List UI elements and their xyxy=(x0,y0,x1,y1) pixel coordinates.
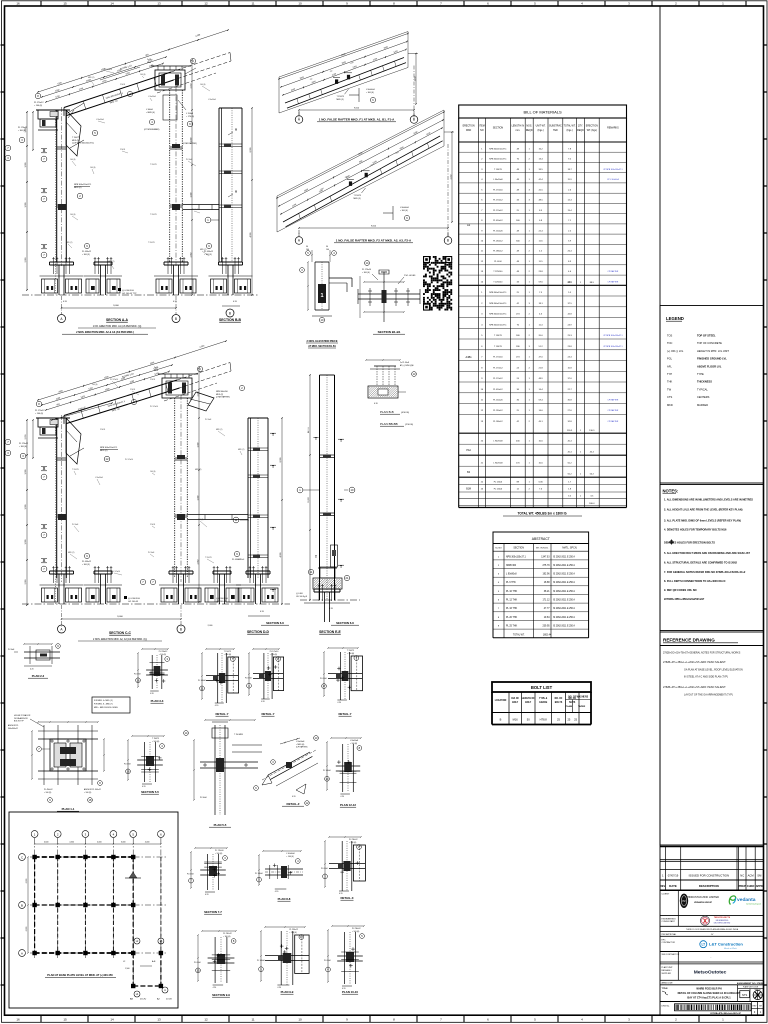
svg-text:PL 230x12: PL 230x12 xyxy=(493,241,503,243)
svg-text:CP L 90x90x8: CP L 90x90x8 xyxy=(607,179,619,181)
svg-text:4 20: 4 20 xyxy=(213,987,217,989)
svg-text:PLAN 2-2: PLAN 2-2 xyxy=(32,674,45,678)
svg-text:THIRD FLOOR SEASONS PLAZA MUMB: THIRD FLOOR SEASONS PLAZA MUMBAI 400001 … xyxy=(686,928,739,931)
svg-text:FINISHED GROUND LVL: FINISHED GROUND LVL xyxy=(697,357,727,361)
svg-text:PL 20 THK: PL 20 THK xyxy=(506,617,518,619)
svg-text:HEIGHT IN MTR. LVL UNIT: HEIGHT IN MTR. LVL UNIT xyxy=(697,349,729,353)
svg-text:+ 100 (6): + 100 (6) xyxy=(270,654,278,656)
svg-text:(4 NOS): (4 NOS) xyxy=(401,412,409,414)
svg-text:ASSIGNMENT NO. 2782B: ASSIGNMENT NO. 2782B xyxy=(737,982,764,985)
svg-text:+ 100 (9): + 100 (9) xyxy=(82,254,90,256)
svg-text:4 20: 4 20 xyxy=(374,403,378,405)
svg-text:PL 230x12: PL 230x12 xyxy=(349,839,358,841)
svg-text:+ 100 (6): + 100 (6) xyxy=(347,653,355,655)
svg-text:15: 15 xyxy=(63,1018,67,1022)
svg-text:B1M: B1M xyxy=(466,489,471,491)
svg-text:CP NPB 300x150x37.1: CP NPB 300x150x37.1 xyxy=(603,346,622,348)
elevation1 haunch at eave xyxy=(66,110,81,156)
svg-text:PL 90x8: PL 90x8 xyxy=(148,552,154,554)
false rafter detail 1 xyxy=(279,32,418,124)
rafter detail dims above xyxy=(281,128,442,214)
svg-text:L 90x90x8: L 90x90x8 xyxy=(493,463,503,465)
svg-text:MKD (2): MKD (2) xyxy=(100,450,108,452)
elevation2 rafter xyxy=(64,380,177,416)
svg-text:TYP: TYP xyxy=(667,372,672,376)
BOM group boundary xyxy=(459,284,627,286)
svg-text:LENGTH OF: LENGTH OF xyxy=(522,698,536,700)
svg-text:100 (6): 100 (6) xyxy=(200,84,206,86)
svg-text:2782B+4TL+3B1+L+L+2021+ST+ARR:: 2782B+4TL+3B1+L+L+2021+ST+ARR: PESO SALI… xyxy=(663,686,726,689)
svg-text:TED: TED xyxy=(553,130,558,132)
svg-text:A1 LVL: A1 LVL xyxy=(307,427,310,433)
purlin piece bracket xyxy=(329,277,352,279)
svg-text:NC: NC xyxy=(740,874,744,878)
svg-text:9,000: 9,000 xyxy=(113,305,119,307)
svg-text:2U 2B: 2U 2B xyxy=(166,999,172,1001)
svg-text:4,000: 4,000 xyxy=(250,233,252,238)
svg-text:L 90x90x8: L 90x90x8 xyxy=(208,99,216,101)
svg-text:PL 10 THK: PL 10 THK xyxy=(506,591,518,593)
svg-text:9,000: 9,000 xyxy=(117,616,123,618)
svg-text:PL 67x8: PL 67x8 xyxy=(194,962,201,964)
svg-text:L 90x90x8: L 90x90x8 xyxy=(506,574,517,576)
svg-text:LT: LT xyxy=(701,943,705,947)
svg-text:2x PL: 2x PL xyxy=(154,367,159,369)
svg-text:PL 450x12: PL 450x12 xyxy=(493,389,503,391)
svg-text:4 20: 4 20 xyxy=(30,669,34,671)
svg-text:MKD: MKD xyxy=(466,130,471,132)
detail PLAN 10-10 xyxy=(324,925,365,994)
svg-text:LVL 100.45: LVL 100.45 xyxy=(128,601,139,603)
svg-text:+ MKD (4): + MKD (4) xyxy=(146,112,155,114)
elevation2 strut to DD column xyxy=(187,514,248,516)
svg-text:PL 170x12: PL 170x12 xyxy=(19,443,28,445)
svg-text:3,000: 3,000 xyxy=(197,496,199,501)
plan B-B small detail xyxy=(358,359,416,426)
svg-text:.: . xyxy=(711,955,712,959)
svg-text:PL 67x8: PL 67x8 xyxy=(320,678,327,680)
svg-text:8,000: 8,000 xyxy=(250,148,252,153)
svg-text:LEGEND: LEGEND xyxy=(666,316,684,321)
svg-text:PL 170x12: PL 170x12 xyxy=(493,378,503,380)
section D-D column view xyxy=(232,417,283,634)
svg-text:MKD (5): MKD (5) xyxy=(337,99,344,101)
sheet rev cells xyxy=(751,1002,753,1016)
svg-text:NPB 300x150x37.1: NPB 300x150x37.1 xyxy=(74,184,92,186)
svg-text:4,000: 4,000 xyxy=(97,842,102,844)
svg-text:1 NO. FALSE RAFTER MKD. F1 AT: 1 NO. FALSE RAFTER MKD. F1 AT MKD. A1, B… xyxy=(319,118,395,122)
svg-text:2x PL 90x8: 2x PL 90x8 xyxy=(400,362,409,364)
svg-text:NPB 300x150: NPB 300x150 xyxy=(216,391,228,393)
svg-text:130.9: 130.9 xyxy=(589,430,595,432)
sectionBB callout xyxy=(205,217,211,223)
rafter detail grid bubbles + title xyxy=(295,237,303,245)
svg-text:PL 140x8: PL 140x8 xyxy=(323,770,331,772)
svg-text:3,000: 3,000 xyxy=(25,203,27,208)
svg-text:9,000: 9,000 xyxy=(371,226,377,228)
svg-text:PLAIN: PLAIN xyxy=(566,705,573,708)
plan column markers xyxy=(32,855,36,859)
svg-text:ERECTION: ERECTION xyxy=(586,126,598,128)
svg-text:(-) 0.300 FGL: (-) 0.300 FGL xyxy=(216,598,229,600)
planBB dim xyxy=(366,359,400,361)
svg-text:SECTION 6-6: SECTION 6-6 xyxy=(266,621,284,625)
svg-text:100 (6): 100 (6) xyxy=(140,74,146,76)
svg-text:DESCRIPTION: DESCRIPTION xyxy=(699,884,719,888)
legend box xyxy=(660,306,764,484)
svg-text:SECTION B1-B1: SECTION B1-B1 xyxy=(378,330,401,334)
svg-text:(Kgs.): (Kgs.) xyxy=(566,130,572,132)
abstract table xyxy=(493,532,589,544)
svg-text:T 150/75: T 150/75 xyxy=(205,557,212,559)
svg-text:PLAN BB-BB: PLAN BB-BB xyxy=(380,422,398,426)
svg-text:SECTION A-A: SECTION A-A xyxy=(106,318,128,322)
right panel divider xyxy=(659,6,661,1015)
svg-text:(1,0P NPB 300x150x37.1): (1,0P NPB 300x150x37.1) xyxy=(72,143,94,145)
svg-text:4 20: 4 20 xyxy=(292,796,296,798)
svg-text:LVL 100 Kg N: LVL 100 Kg N xyxy=(296,596,308,598)
svg-text:LAYOUT OF THE GA ARRANGEMENT (: LAYOUT OF THE GA ARRANGEMENT (TYP) xyxy=(684,694,733,697)
svg-text:3,000: 3,000 xyxy=(25,540,27,545)
svg-text:PLAN 10-10: PLAN 10-10 xyxy=(342,990,358,994)
svg-text:SECTION E-E: SECTION E-E xyxy=(319,630,341,634)
svg-text:BILL OF MATERIALS: BILL OF MATERIALS xyxy=(523,110,562,115)
svg-text:4 20: 4 20 xyxy=(261,701,265,703)
svg-text:PL 67x8: PL 67x8 xyxy=(134,673,141,675)
svg-text:4 20: 4 20 xyxy=(275,891,279,893)
other consultant row xyxy=(660,961,764,963)
svg-text:HZ: HZ xyxy=(682,900,686,903)
svg-text:MKD (2): MKD (2) xyxy=(108,261,115,263)
svg-text:TYPE: TYPE xyxy=(697,372,704,376)
svg-text:PL 67x8: PL 67x8 xyxy=(245,678,252,680)
svg-text:T 150/75: T 150/75 xyxy=(494,335,503,337)
svg-text:100 (6): 100 (6) xyxy=(70,159,76,161)
svg-text:PMC APPROVAL: PMC APPROVAL xyxy=(662,933,677,936)
svg-text:18.88: 18.88 xyxy=(544,582,550,584)
B1B1 bolts xyxy=(369,288,371,306)
svg-text:PL 170x12: PL 170x12 xyxy=(35,410,45,412)
svg-text:NPB 300x150x37.1: NPB 300x150x37.1 xyxy=(489,292,507,294)
L&T logo xyxy=(700,941,707,948)
svg-text:CP NPB 300x150x37.1: CP NPB 300x150x37.1 xyxy=(603,169,622,171)
svg-text:4,000: 4,000 xyxy=(280,553,282,558)
svg-text:SECTION: SECTION xyxy=(513,547,524,550)
elevation1 left grid callouts xyxy=(5,145,11,151)
svg-text:PL 140x8: PL 140x8 xyxy=(257,960,265,962)
svg-text:vedanta: vedanta xyxy=(737,897,756,903)
plan grid lines horizontal xyxy=(30,856,166,858)
svg-text:WT. (Kgs): WT. (Kgs) xyxy=(587,130,597,132)
elevation1 ground line xyxy=(22,294,258,296)
svg-text:SUPPLIER: SUPPLIER xyxy=(662,973,672,975)
svg-text:1,500: 1,500 xyxy=(125,968,130,970)
svg-text:SECTION B-B: SECTION B-B xyxy=(219,318,242,322)
svg-text:3,000: 3,000 xyxy=(190,138,192,143)
svg-text:AFL: AFL xyxy=(667,364,672,368)
svg-text:NO. OF: NO. OF xyxy=(555,698,563,700)
svg-text:PL 90x8: PL 90x8 xyxy=(205,419,211,421)
svg-text:8,000: 8,000 xyxy=(280,458,282,463)
svg-text:VEDANTA GROUP: VEDANTA GROUP xyxy=(694,901,713,904)
svg-text:PL 450x12: PL 450x12 xyxy=(204,251,213,253)
plan 5-5 cross detail xyxy=(184,719,262,827)
svg-text:+ 100 (6): + 100 (6) xyxy=(223,936,231,938)
svg-text:B: B xyxy=(21,903,23,907)
svg-text:ABOVE FLOOR LVL: ABOVE FLOOR LVL xyxy=(697,364,722,368)
svg-text:SECTION 5-5: SECTION 5-5 xyxy=(141,790,159,794)
svg-text:NOTES:: NOTES: xyxy=(663,489,679,494)
svg-text:SECTION 6-6: SECTION 6-6 xyxy=(336,621,354,625)
svg-text:+ 100 (9): + 100 (9) xyxy=(204,254,212,256)
elevation1 eave connection detail xyxy=(38,110,58,119)
svg-text:100 (6): 100 (6) xyxy=(90,167,96,169)
svg-text:10: 10 xyxy=(298,1018,302,1022)
svg-text:1. ALL DIMENSIONS ARE IN MILLI: 1. ALL DIMENSIONS ARE IN MILLIMETERS AND… xyxy=(664,498,753,502)
svg-text:3,000: 3,000 xyxy=(25,470,27,475)
svg-text:4 20: 4 20 xyxy=(277,987,281,989)
svg-text:4,500: 4,500 xyxy=(44,842,49,844)
svg-text:B: B xyxy=(447,239,449,243)
svg-text:MKD (5): MKD (5) xyxy=(354,198,361,200)
svg-text:T 150/75: T 150/75 xyxy=(224,651,231,653)
svg-text:MKD + MKD 300 NOS. SIDES: MKD + MKD 300 NOS. SIDES xyxy=(94,707,119,709)
plan row bubbles xyxy=(19,854,26,861)
svg-text:M16: M16 xyxy=(513,718,519,722)
svg-text:ABSTRACT: ABSTRACT xyxy=(532,537,550,541)
svg-text:4 20: 4 20 xyxy=(339,893,343,895)
svg-text:2,250: 2,250 xyxy=(414,76,416,81)
svg-text:TOTAL WT. 450LBS 3m x 1800 lb: TOTAL WT. 450LBS 3m x 1800 lb xyxy=(517,512,566,516)
svg-text:NPB 300x150x37.1: NPB 300x150x37.1 xyxy=(506,556,527,558)
svg-text:12: 12 xyxy=(204,2,208,6)
Hindustan Zinc oval logo xyxy=(680,894,688,908)
svg-text:MARKED: MARKED xyxy=(697,403,708,407)
svg-text:(+) OR (-) LVL: (+) OR (-) LVL xyxy=(667,349,684,353)
svg-text:MKD (2): MKD (2) xyxy=(88,77,95,79)
svg-text:IS 2062-2011 E 250 A: IS 2062-2011 E 250 A xyxy=(553,590,575,593)
svg-text:4,500: 4,500 xyxy=(69,842,74,844)
note box xyxy=(92,697,130,713)
svg-text:300x300x12: 300x300x12 xyxy=(8,728,18,730)
svg-text:2 NOS: 2 NOS xyxy=(130,389,136,391)
svg-text:REV: REV xyxy=(660,884,666,888)
svg-text:SECTION 7-7: SECTION 7-7 xyxy=(204,910,222,914)
sectionDD base xyxy=(246,570,270,572)
svg-text:4. DENOTES HOLES FOR TEMP: 4. DENOTES HOLES FOR TEMPORARY BOLTS M16 xyxy=(664,528,727,532)
svg-text:PA4: PA4 xyxy=(466,449,471,452)
svg-text:QTY.: QTY. xyxy=(578,126,583,128)
svg-text:+ 100 (6): + 100 (6) xyxy=(18,130,26,132)
supplier row xyxy=(660,963,764,965)
BOM group A1 rows xyxy=(459,151,627,153)
svg-text:T 150/75: T 150/75 xyxy=(148,242,155,244)
svg-text:IS 2062-2011 E 250 A: IS 2062-2011 E 250 A xyxy=(553,555,575,558)
svg-text:MKD (2): MKD (2) xyxy=(238,449,245,451)
svg-text:LOCATION: LOCATION xyxy=(495,699,507,702)
svg-text:PLAN 3-3: PLAN 3-3 xyxy=(151,699,164,703)
svg-text:4 20: 4 20 xyxy=(142,786,146,788)
svg-text:CENTERS: CENTERS xyxy=(697,395,710,399)
rafter detail cleats xyxy=(349,181,352,186)
svg-text:PL 170x10: PL 170x10 xyxy=(215,850,224,852)
svg-text:PL 90x8: PL 90x8 xyxy=(200,797,207,799)
svg-text:TW: TW xyxy=(667,387,672,391)
svg-text:4 20: 4 20 xyxy=(215,705,219,707)
svg-text:PL 170x12: PL 170x12 xyxy=(493,200,503,202)
B1B1 vertical bolt xyxy=(383,272,385,322)
svg-text:7. FOR GENERAL NOTES REFER DRG: 7. FOR GENERAL NOTES REFER DRG NO 2782B+… xyxy=(664,570,746,574)
svg-text:MKD (2): MKD (2) xyxy=(68,552,75,554)
elevation1 dashed projection xyxy=(171,53,230,73)
svg-text:2 NOS. ERECTION MKD. A2, A3 (A: 2 NOS. ERECTION MKD. A2, A3 (AS PER MKD.… xyxy=(93,638,147,641)
svg-text:T 150/75: T 150/75 xyxy=(347,650,354,652)
elevation2 mid haunch detail xyxy=(188,392,214,411)
svg-text:CTS: CTS xyxy=(667,395,672,399)
svg-text:LENGTH IN: LENGTH IN xyxy=(512,126,525,128)
svg-text:REQD: REQD xyxy=(577,130,584,132)
svg-text:PLAN 9-9: PLAN 9-9 xyxy=(281,990,294,994)
svg-text:171.12: 171.12 xyxy=(542,600,550,602)
plan view box xyxy=(9,812,178,1008)
svg-text:PL 170x12: PL 170x12 xyxy=(34,102,44,104)
svg-text:ENGINEERING: ENGINEERING xyxy=(662,918,676,920)
svg-text:BAY AT CT4 AauCT1 PLA1 A B CPL: BAY AT CT4 AauCT1 PLA1 A B CPL1 xyxy=(687,997,731,1000)
svg-text:T 150/75: T 150/75 xyxy=(354,195,361,197)
svg-text:NPB 300x150x37.1: NPB 300x150x37.1 xyxy=(100,447,118,449)
svg-text:14: 14 xyxy=(110,1018,114,1022)
svg-text:A4B1: A4B1 xyxy=(466,356,473,359)
svg-text:MKD (2): MKD (2) xyxy=(216,394,223,396)
svg-text:PL 90x8: PL 90x8 xyxy=(238,559,244,561)
svg-text:+ 100 (6): + 100 (6) xyxy=(352,931,360,933)
svg-text:NPB 300x150x37.1: NPB 300x150x37.1 xyxy=(489,303,507,305)
svg-text:1 NO. ERECTION MKD. A1 (AS PER: 1 NO. ERECTION MKD. A1 (AS PER MKD. (1)) xyxy=(93,325,142,328)
svg-text:1802.44: 1802.44 xyxy=(543,634,552,636)
svg-text:B: B xyxy=(413,118,415,122)
BOM header xyxy=(459,141,627,143)
svg-text:(-) 0.300 FGL: (-) 0.300 FGL xyxy=(122,290,135,292)
sectionEE left dim xyxy=(309,375,311,600)
svg-text:2x PL: 2x PL xyxy=(147,59,152,61)
svg-text:SECTION D-D: SECTION D-D xyxy=(247,630,270,634)
elevation1 rafter xyxy=(64,72,171,108)
svg-text:192.96: 192.96 xyxy=(542,574,550,576)
elevation2 dashed projection xyxy=(177,363,230,381)
svg-text:TATA PROJECTS: TATA PROJECTS xyxy=(714,916,731,919)
svg-text:6,000: 6,000 xyxy=(26,879,28,884)
svg-text:+ 100 (6): + 100 (6) xyxy=(35,413,43,415)
rafter detail stiffener ticks xyxy=(299,213,301,219)
svg-text:PL 230x12: PL 230x12 xyxy=(352,928,361,930)
scale cells xyxy=(738,988,764,990)
svg-text:14: 14 xyxy=(110,2,114,6)
bolt list table xyxy=(492,682,591,692)
detail DETAIL-X xyxy=(321,836,365,900)
svg-text:FGL: FGL xyxy=(667,357,673,361)
reference drawing box xyxy=(660,646,764,846)
svg-text:3. ALL PLATE MKD. DIMS OF 6mm: 3. ALL PLATE MKD. DIMS OF 6mm LEVELS (RE… xyxy=(664,519,741,523)
rafter detail right end dim xyxy=(451,132,453,222)
svg-text:PL 120x6: PL 120x6 xyxy=(494,481,503,483)
svg-text:2 NOS: 2 NOS xyxy=(100,429,106,431)
svg-text:CP RAFTER: CP RAFTER xyxy=(608,280,619,283)
svg-text:PL 170x10: PL 170x10 xyxy=(150,406,158,408)
svg-text:SUB CONTRACTOR: SUB CONTRACTOR xyxy=(662,953,680,956)
svg-text:T 225/140: T 225/140 xyxy=(493,281,503,283)
svg-text:PL 25 THK: PL 25 THK xyxy=(506,626,518,628)
detail PLAN 8-8 xyxy=(255,850,303,901)
svg-text:THK: THK xyxy=(667,380,672,384)
svg-text:CP NPB 300x150x37.1: CP NPB 300x150x37.1 xyxy=(603,335,622,337)
svg-text:PL 120x6: PL 120x6 xyxy=(494,489,503,491)
svg-text:CP RAFTER: CP RAFTER xyxy=(608,270,619,273)
svg-text:12: 12 xyxy=(204,1018,208,1022)
detail PLAN 3-3 xyxy=(134,648,170,703)
elevation1 grid bubbles xyxy=(58,315,66,323)
svg-text:PL 170x10: PL 170x10 xyxy=(493,357,503,359)
svg-text:+ 100 (6): + 100 (6) xyxy=(152,741,160,743)
svg-text:MKD (5): MKD (5) xyxy=(72,140,79,142)
QR code xyxy=(423,256,452,311)
elevation section C-C xyxy=(5,331,290,641)
svg-text:6. ALL STRUCTURAL DETAILS ARE: 6. ALL STRUCTURAL DETAILS ARE CONFIRMED … xyxy=(664,561,738,565)
svg-text:+ 100 (6): + 100 (6) xyxy=(289,932,297,934)
svg-text:L 90x90x8: L 90x90x8 xyxy=(95,477,103,479)
svg-text:HINDUSTAN ZINC LIMITED: HINDUSTAN ZINC LIMITED xyxy=(687,895,719,899)
plan grid bubbles top xyxy=(31,831,38,838)
svg-text:TITLE: TITLE xyxy=(662,988,669,990)
svg-text:47.77: 47.77 xyxy=(544,608,550,610)
rafter detail grid bubbles + title xyxy=(295,116,303,124)
svg-text:L 90x90x8: L 90x90x8 xyxy=(286,853,294,855)
svg-text:PL 67x8: PL 67x8 xyxy=(324,960,331,962)
svg-text:+ 170 (6): + 170 (6) xyxy=(186,116,194,118)
svg-text:2,950: 2,950 xyxy=(190,253,192,258)
svg-text:20 DIA ANCHOR: 20 DIA ANCHOR xyxy=(14,717,28,720)
svg-text:NPB 300x150x37.1: NPB 300x150x37.1 xyxy=(489,148,507,150)
consultant address strip xyxy=(660,931,764,933)
detail SECTION 7-7 xyxy=(187,847,228,914)
elevation2 ridge connection xyxy=(162,378,192,398)
svg-text:ISMB 300: ISMB 300 xyxy=(506,565,517,567)
svg-text:2 NOS. ERECTION MKD. A2 & A3 (: 2 NOS. ERECTION MKD. A2 & A3 (AS PER MKD… xyxy=(76,331,134,334)
svg-text:38.21: 38.21 xyxy=(544,591,550,593)
svg-text:(-) 0.300: (-) 0.300 xyxy=(296,593,303,595)
svg-text:(CP RAFTER): (CP RAFTER) xyxy=(296,746,308,749)
plan section arrow xyxy=(129,872,137,878)
false rafter detail 2 xyxy=(277,110,454,244)
svg-text:ANCHOR PL: ANCHOR PL xyxy=(8,724,18,727)
elevation1 left column xyxy=(56,110,58,262)
svg-text:TYPE &: TYPE & xyxy=(539,698,548,700)
svg-text:6,000: 6,000 xyxy=(26,927,28,932)
svg-text:B: B xyxy=(180,627,182,631)
svg-text:B: B xyxy=(175,317,177,321)
svg-text:PL 170x10: PL 170x10 xyxy=(362,269,371,271)
svg-text:2 NO. HOLES: 2 NO. HOLES xyxy=(404,275,416,277)
rafter detail stiffener ticks xyxy=(297,99,299,105)
BOM subtotal A4B1 + small groups xyxy=(459,432,627,434)
svg-text:MetsoOutotec: MetsoOutotec xyxy=(694,970,727,976)
svg-text:(CP NPB MEMBER): (CP NPB MEMBER) xyxy=(144,129,160,131)
svg-text:PL 230x12: PL 230x12 xyxy=(159,651,168,653)
svg-text:PL 150x20: PL 150x20 xyxy=(493,400,503,402)
elevation2 grid bubbles xyxy=(58,625,66,633)
svg-text:100 (6): 100 (6) xyxy=(70,214,76,216)
svg-text:MKD (2): MKD (2) xyxy=(195,469,202,471)
svg-text:PL 90x8: PL 90x8 xyxy=(192,209,198,211)
